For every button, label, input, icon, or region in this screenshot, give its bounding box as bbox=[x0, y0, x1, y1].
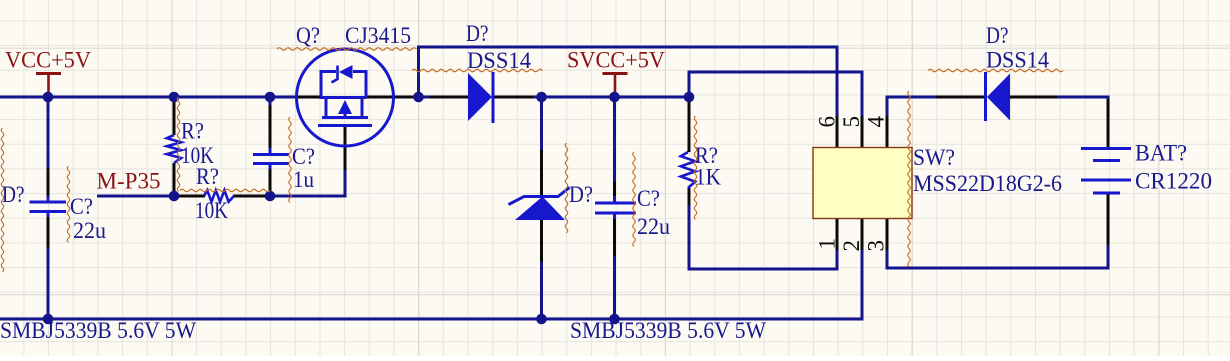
diode D3 zener SMBJ5339B bbox=[515, 197, 565, 221]
svg-text:22u: 22u bbox=[637, 214, 670, 239]
svg-text:1u: 1u bbox=[293, 167, 314, 192]
wire: main horizontal rail VCC+5V y=97 bbox=[0, 96, 302, 99]
svg-text:R?: R? bbox=[181, 119, 204, 144]
wire: R3 1K bottom to switch pin 1 bbox=[688, 204, 691, 271]
pin: MOSFET gate pin bbox=[344, 124, 347, 170]
svg-text:CR1220: CR1220 bbox=[1135, 169, 1212, 194]
svg-text:1: 1 bbox=[815, 238, 840, 250]
power port VCC+5V bbox=[36, 72, 61, 75]
wire: C2 1u branch vertical x=270 bbox=[269, 97, 272, 106]
wire: gate wire from node to MOSFET gate bbox=[269, 195, 347, 198]
node junction SVCC / C3 bbox=[609, 92, 620, 103]
pin: switch pin 1 bbox=[836, 218, 839, 250]
svg-text:C?: C? bbox=[70, 194, 93, 219]
capacitor C2 1u bbox=[253, 153, 289, 156]
power port SVCC+5V bbox=[603, 72, 628, 75]
node junction SVCC / R3 bbox=[684, 92, 695, 103]
resistor R2 10K (horizontal) bbox=[204, 190, 234, 202]
svg-text:3: 3 bbox=[864, 240, 889, 252]
node junction gate node / C2 bbox=[265, 191, 276, 202]
pin: C3 pins bbox=[613, 182, 616, 197]
capacitor C3 22u bbox=[595, 202, 636, 205]
svg-text:4: 4 bbox=[864, 116, 889, 128]
error squiggle R3 bbox=[694, 116, 697, 220]
error squiggle D1 label bbox=[412, 69, 543, 72]
wire: zener branch vertical x=541.5 bbox=[540, 97, 543, 151]
node junction M-P35 node bbox=[169, 191, 180, 202]
pin: battery pins bbox=[1107, 99, 1110, 149]
svg-text:VCC+5V: VCC+5V bbox=[5, 48, 91, 73]
pin: C2 1u pins bbox=[269, 105, 272, 149]
node junction VCC rail / C1 bbox=[43, 92, 54, 103]
pin: switch pin 6 bbox=[836, 116, 839, 148]
error squiggle zener bbox=[565, 143, 568, 233]
error squiggle D2 label bbox=[928, 69, 1063, 72]
svg-text:CJ3415: CJ3415 bbox=[345, 23, 411, 48]
capacitor C1 22u bbox=[30, 201, 67, 204]
pin: switch pin 4 bbox=[886, 116, 889, 148]
battery BAT1 CR1220 bbox=[1081, 147, 1131, 150]
switch SW1 body bbox=[813, 148, 912, 219]
wire: M-P35 net stub bbox=[97, 195, 174, 198]
resistor R3 1K (vertical) bbox=[681, 152, 695, 188]
wire: bottom ground rail y=319 bbox=[0, 318, 864, 321]
svg-text:DSS14: DSS14 bbox=[986, 48, 1049, 73]
svg-text:10K: 10K bbox=[195, 198, 228, 223]
pin: C1 pins bbox=[47, 168, 50, 196]
error squiggle R2 bbox=[180, 189, 270, 192]
svg-text:D?: D? bbox=[986, 23, 1009, 48]
pin: zener pins bbox=[540, 150, 543, 197]
svg-text:MSS22D18G2-6: MSS22D18G2-6 bbox=[913, 171, 1062, 196]
wire: C1 branch vertical x=48 bbox=[47, 97, 50, 169]
wire: R1 branch vertical x=174 top bbox=[173, 97, 176, 101]
error squiggle C3 bbox=[633, 152, 636, 247]
svg-text:C?: C? bbox=[637, 186, 660, 211]
wire: switch pin 2 down to bottom rail bbox=[861, 249, 864, 321]
wire: R3 top node up/right to switch pin 5 bbox=[688, 71, 691, 99]
svg-text:SMBJ5339B 5.6V 5W: SMBJ5339B 5.6V 5W bbox=[570, 318, 766, 343]
svg-text:5: 5 bbox=[839, 116, 864, 128]
pin: switch pin 5 bbox=[861, 116, 864, 148]
pin: switch pin 3 bbox=[886, 218, 889, 250]
svg-text:6: 6 bbox=[815, 116, 840, 128]
error squiggle C1 bbox=[67, 166, 70, 243]
wire: MOSFET drain to D1 anode node bbox=[416, 96, 431, 99]
error squiggle Q1 label bbox=[277, 48, 417, 51]
svg-text:SMBJ5339B 5.6V 5W: SMBJ5339B 5.6V 5W bbox=[0, 318, 196, 343]
pin: MOSFET source pin bbox=[298, 96, 323, 99]
svg-text:D?: D? bbox=[2, 182, 25, 207]
wire: D2 cathode... anode side to battery top corner bbox=[1056, 96, 1110, 99]
node junction VCC rail / C2 bbox=[265, 92, 276, 103]
svg-text:DSS14: DSS14 bbox=[467, 48, 531, 73]
svg-text:Q?: Q? bbox=[296, 23, 320, 48]
pin: D2 pins bbox=[936, 96, 986, 99]
svg-text:BAT?: BAT? bbox=[1135, 141, 1187, 166]
pin: switch pin 2 bbox=[861, 218, 864, 250]
svg-text:2: 2 bbox=[839, 240, 864, 252]
wire: top feedback wire from drain node up and right to switch pin 6 bbox=[417, 46, 420, 99]
svg-text:D?: D? bbox=[569, 182, 593, 207]
pin: MOSFET drain pin bbox=[365, 96, 417, 99]
transistor Q1 CJ3415 P-MOSFET bbox=[297, 49, 394, 146]
pin: R3 1K pins bbox=[688, 97, 691, 152]
diode D1 DSS14 bbox=[468, 73, 492, 121]
node junction Q1 drain / D1 bbox=[413, 92, 424, 103]
pin: D1 pins bbox=[430, 96, 469, 99]
node junction D1 / zener D3 bbox=[536, 92, 547, 103]
error squiggle left edge bbox=[1, 128, 4, 272]
error squiggle R1 bbox=[177, 97, 180, 192]
node junction bottom rail / D3 bbox=[536, 314, 547, 325]
resistor R1 10K (vertical) bbox=[167, 135, 181, 163]
node junction VCC rail / R1 bbox=[169, 92, 180, 103]
svg-text:R?: R? bbox=[196, 164, 219, 189]
node junction bottom rail / C3 bbox=[609, 314, 620, 325]
svg-text:M-P35: M-P35 bbox=[97, 169, 161, 194]
svg-text:1K: 1K bbox=[695, 165, 721, 190]
svg-text:SW?: SW? bbox=[913, 145, 955, 170]
svg-text:SVCC+5V: SVCC+5V bbox=[567, 48, 665, 73]
wire: switch pin 4 up to right rail bbox=[886, 96, 889, 118]
wire: D1 cathode to SVCC rail bbox=[532, 96, 691, 99]
wire: switch pin 3 to battery negative bbox=[886, 249, 889, 267]
svg-text:C?: C? bbox=[292, 144, 315, 169]
diode D2 DSS14 bbox=[987, 74, 1010, 121]
pin: R2 pins bbox=[175, 195, 205, 198]
wire: C3 22u branch vertical x=614.5 bbox=[613, 97, 616, 184]
pin: R1 pins bbox=[173, 99, 176, 135]
error squiggle C2 bbox=[289, 117, 292, 203]
node junction bottom rail / C1 bbox=[43, 314, 54, 325]
error squiggle switch bbox=[908, 91, 911, 267]
svg-text:D?: D? bbox=[466, 21, 489, 46]
svg-text:22u: 22u bbox=[73, 218, 106, 243]
